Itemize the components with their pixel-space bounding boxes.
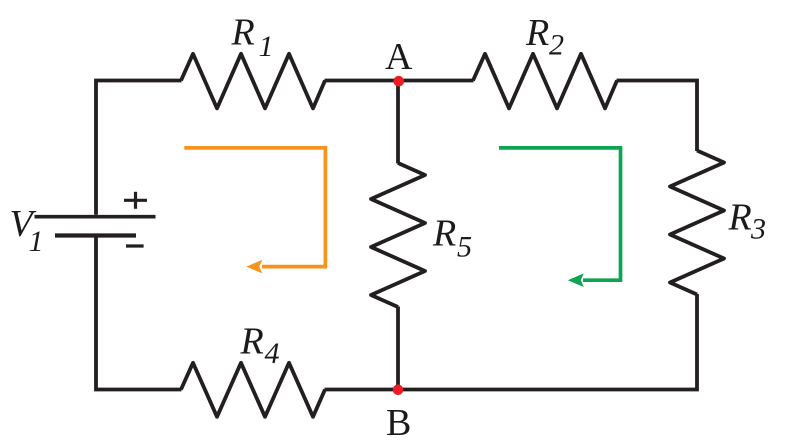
orange mesh loop 1 bbox=[184, 148, 325, 267]
green loop arrowhead bbox=[568, 273, 584, 287]
wire R4 to bottom-left corner up to battery minus bbox=[96, 237, 182, 389]
battery V1 long plate (+) bbox=[35, 215, 156, 219]
svg-text:4: 4 bbox=[265, 337, 280, 370]
resistor R5 bbox=[371, 163, 425, 307]
svg-text:1: 1 bbox=[29, 225, 44, 258]
orange loop arrowhead bbox=[246, 260, 262, 274]
node A red dot bbox=[393, 76, 404, 87]
resistor R1 bbox=[181, 54, 325, 109]
resistor R4 bbox=[181, 363, 325, 417]
svg-text:3: 3 bbox=[750, 213, 766, 246]
svg-text:5: 5 bbox=[457, 230, 472, 263]
svg-text:1: 1 bbox=[259, 30, 274, 63]
svg-text:A: A bbox=[385, 36, 413, 78]
svg-text:B: B bbox=[386, 402, 411, 444]
green mesh loop 2 bbox=[499, 148, 621, 280]
resistor R3 bbox=[670, 151, 724, 295]
wire node A down to R5 bbox=[396, 81, 400, 164]
svg-text:R: R bbox=[525, 12, 549, 54]
wire top-left from battery to R1 bbox=[96, 81, 182, 215]
wire R1 to node A to R2 bbox=[325, 79, 474, 83]
resistor R2 bbox=[473, 54, 617, 109]
wire R2 to top-right corner down to R3 bbox=[617, 81, 698, 152]
battery plus sign bbox=[124, 192, 147, 209]
svg-text:R: R bbox=[231, 12, 255, 54]
wire R5 to node B bbox=[396, 307, 400, 390]
node B red dot bbox=[393, 385, 404, 396]
svg-text:R: R bbox=[432, 213, 456, 255]
battery V1 short plate (-) bbox=[55, 233, 136, 237]
wire R3 to bottom-right corner to node B bbox=[398, 294, 698, 390]
svg-text:R: R bbox=[240, 321, 264, 363]
battery minus sign bbox=[126, 244, 144, 247]
svg-text:R: R bbox=[728, 197, 752, 239]
wire node B to R4 bbox=[325, 388, 399, 392]
svg-text:2: 2 bbox=[549, 29, 564, 62]
